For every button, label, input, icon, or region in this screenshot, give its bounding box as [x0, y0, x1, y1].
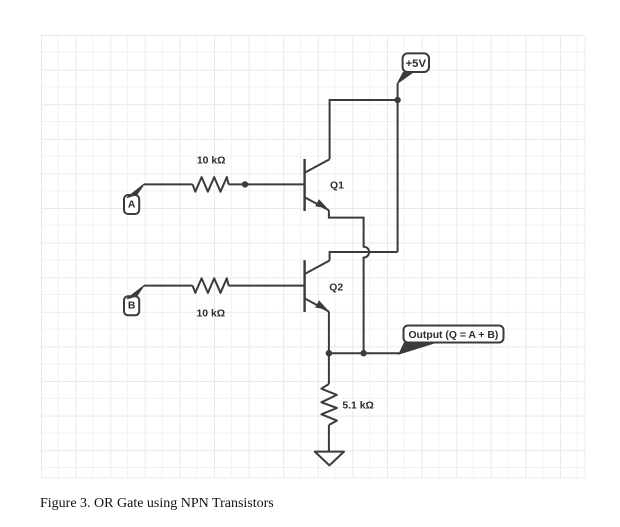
wire Q1 emitter down with hop over Q2 collector wire [329, 210, 369, 353]
+5V callout [398, 53, 430, 83]
transistor Q1 [305, 159, 330, 211]
junction dot Q1 emitter at output [360, 350, 366, 356]
svg-text:+5V: +5V [406, 58, 427, 70]
wire R3 to ground [328, 425, 330, 452]
resistor R3 5.1k [321, 384, 337, 425]
svg-text:A: A [128, 199, 136, 210]
junction dot +5V rail [394, 97, 400, 103]
transistor Q2 [305, 260, 330, 312]
ground [315, 452, 344, 466]
node B input callout [124, 286, 144, 316]
wire R1 to Q1 base [229, 183, 305, 185]
svg-text:Q1: Q1 [330, 180, 344, 191]
svg-text:Output (Q = A + B): Output (Q = A + B) [408, 330, 498, 341]
resistor R2 10k [193, 278, 229, 293]
svg-text:10 kΩ: 10 kΩ [197, 156, 226, 167]
wire Q1 collector up and right to +5V rail [330, 100, 398, 159]
junction dot on A wire [242, 181, 248, 187]
svg-text:10 kΩ: 10 kΩ [197, 309, 226, 320]
resistor R1 10k [193, 177, 229, 192]
output callout [399, 326, 504, 355]
wire +5V rail vertical [397, 83, 399, 252]
svg-text:5.1 kΩ: 5.1 kΩ [342, 400, 373, 411]
wire output node horizontal [329, 352, 399, 354]
wire R2 to Q2 base [229, 285, 305, 287]
junction dot Q2 emitter at output [326, 350, 332, 356]
grid background [41, 35, 586, 478]
wire Q2 collector to +5V rail [330, 252, 398, 261]
svg-text:Figure 3. OR Gate using NPN Tr: Figure 3. OR Gate using NPN Transistors [40, 496, 274, 511]
wire B to resistor R2 [144, 285, 193, 287]
svg-text:B: B [128, 301, 136, 312]
node A input callout [124, 184, 144, 214]
svg-text:Q2: Q2 [329, 282, 343, 293]
wire A to resistor R1 [144, 183, 193, 185]
wire Q2 emitter down to output node [328, 312, 330, 354]
wire output node to resistor R3 [328, 353, 330, 384]
